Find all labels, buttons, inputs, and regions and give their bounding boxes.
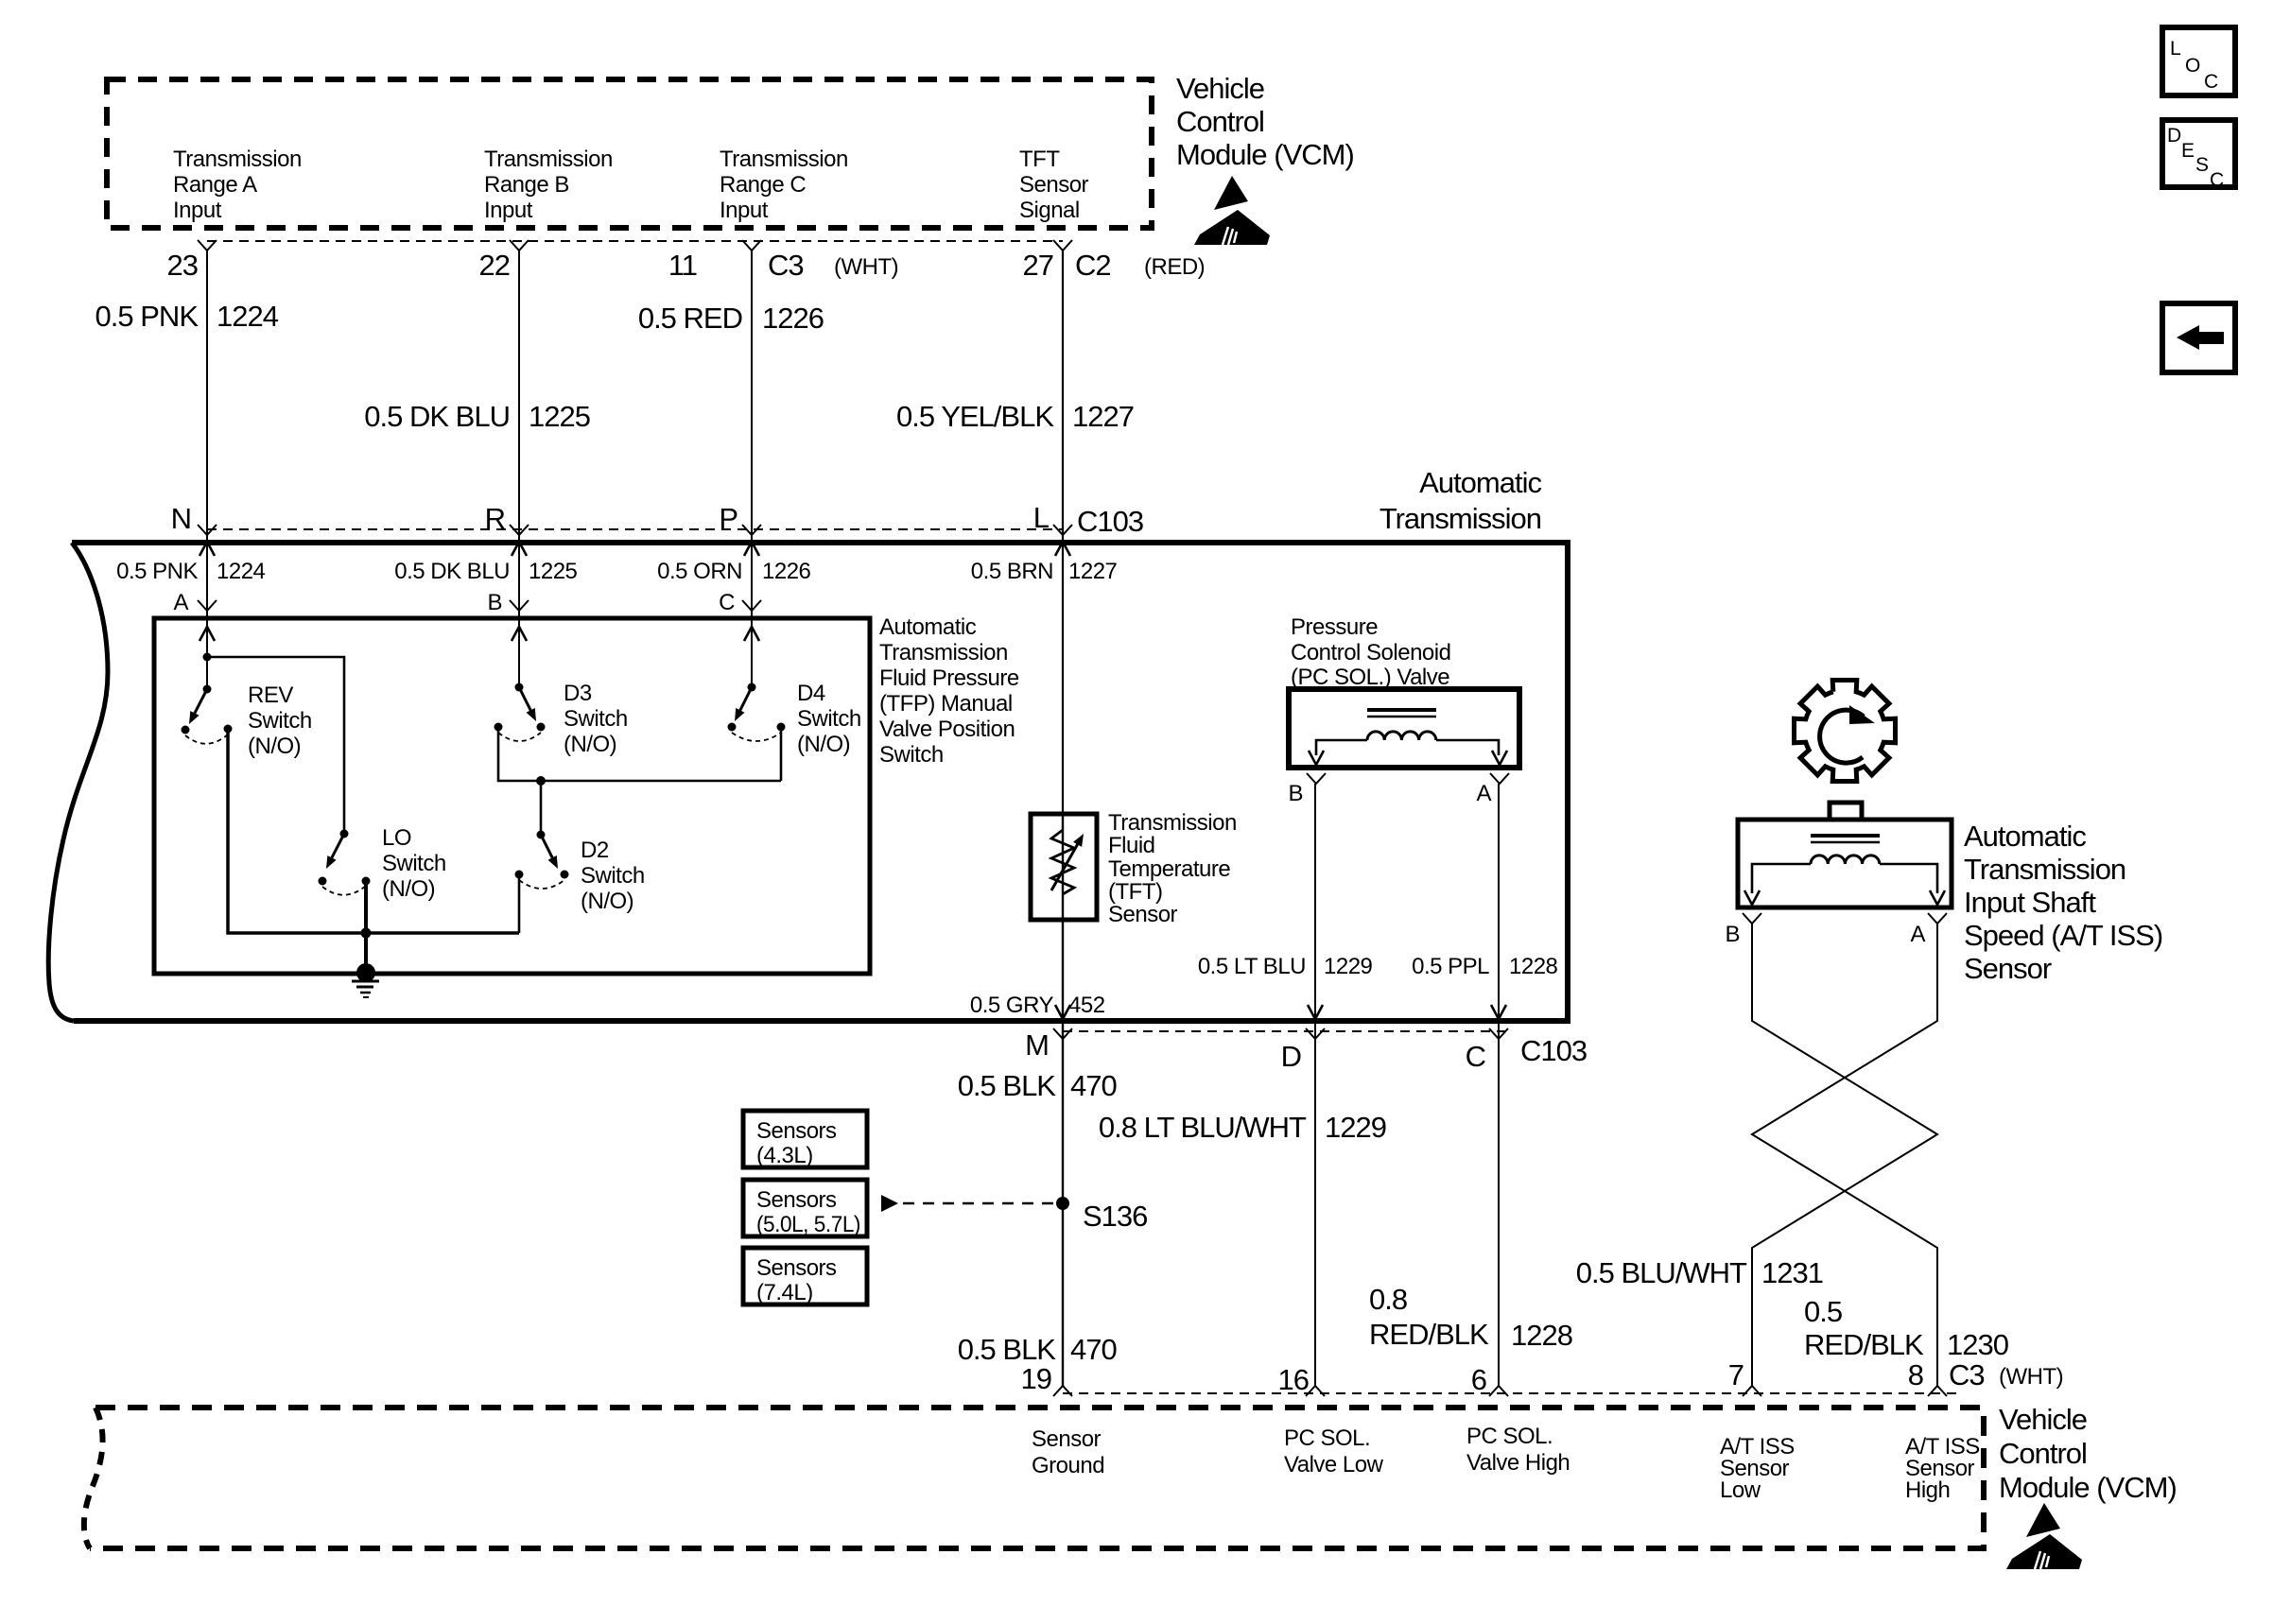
- svg-text:Range B: Range B: [484, 172, 569, 198]
- fork P: [742, 525, 761, 535]
- fork ISS A: [1928, 913, 1947, 924]
- D3 switch label: [564, 681, 628, 757]
- wire D3 to link bus: [498, 727, 781, 781]
- svg-text:Control Solenoid: Control Solenoid: [1291, 640, 1450, 665]
- fork N: [198, 525, 217, 535]
- svg-text:1228: 1228: [1509, 954, 1558, 979]
- svg-text:(7.4L): (7.4L): [756, 1280, 813, 1305]
- svg-text:1225: 1225: [529, 559, 578, 584]
- REV switch pivot: [203, 685, 212, 694]
- svg-text:D: D: [1281, 1040, 1301, 1073]
- REV switch blade: [195, 689, 207, 713]
- svg-text:(N/O): (N/O): [382, 876, 435, 902]
- svg-text:(WHT): (WHT): [1999, 1364, 2063, 1390]
- D3 switch pivot: [515, 683, 524, 692]
- svg-text:0.5 PNK: 0.5 PNK: [116, 559, 198, 584]
- svg-text:0.8 LT BLU/WHT: 0.8 LT BLU/WHT: [1099, 1111, 1307, 1144]
- fork pin 6: [1489, 1386, 1508, 1396]
- node A junction: [203, 653, 212, 662]
- svg-text:452: 452: [1068, 993, 1105, 1018]
- svg-text:16: 16: [1278, 1363, 1309, 1396]
- fork pin 23: [198, 240, 217, 251]
- svg-text:27: 27: [1023, 249, 1053, 282]
- svg-text:(4.3L): (4.3L): [756, 1143, 813, 1168]
- svg-text:8: 8: [1908, 1358, 1923, 1391]
- svg-text:Switch: Switch: [564, 706, 628, 732]
- svg-text:Sensor: Sensor: [1032, 1426, 1102, 1452]
- svg-text:19: 19: [1021, 1362, 1051, 1395]
- svg-text:1229: 1229: [1324, 954, 1373, 979]
- fork pin 27: [1053, 240, 1072, 251]
- svg-text:Range A: Range A: [173, 172, 257, 198]
- ISS arrow B: [1744, 890, 1760, 905]
- sensors 4.3L box: [743, 1111, 867, 1168]
- fork pin 16: [1306, 1386, 1325, 1396]
- REV switch contacts: [182, 725, 233, 734]
- label Vehicle Control Module (VCM) bottom: [1999, 1403, 2177, 1504]
- wire REV to ground bus: [228, 729, 519, 933]
- svg-text:PC SOL.: PC SOL.: [1284, 1425, 1370, 1451]
- wire 452 GRY (TFT to M): [1062, 815, 1064, 1386]
- svg-text:Sensor: Sensor: [1964, 952, 2052, 985]
- svg-text:Switch: Switch: [248, 708, 312, 734]
- ISS sensor label: [1964, 820, 2162, 985]
- svg-text:D: D: [2167, 125, 2181, 147]
- label TFT Sensor Signal: [1019, 147, 1089, 223]
- svg-text:0.5 RED: 0.5 RED: [638, 302, 742, 335]
- label 0.5 DK BLU 1225 (inner): [394, 559, 577, 584]
- label 0.5 PPL 1228: [1412, 954, 1557, 979]
- svg-text:LO: LO: [382, 825, 411, 851]
- svg-text:0.5 LT BLU: 0.5 LT BLU: [1198, 954, 1306, 979]
- label 0.5 PNK 1224 (inner): [116, 559, 265, 584]
- TFP manual valve position switch box: [154, 618, 870, 974]
- fork C: [742, 600, 761, 611]
- svg-text:0.5 YEL/BLK: 0.5 YEL/BLK: [896, 400, 1054, 433]
- label Transmission Range C Input: [720, 147, 848, 223]
- PC solenoid arrow A: [1492, 751, 1507, 765]
- svg-text:1224: 1224: [217, 300, 279, 333]
- wire 1225 DK BLU (pin22 to R): [518, 251, 520, 687]
- svg-text:L: L: [2170, 38, 2180, 60]
- fork pin 7: [1743, 1386, 1761, 1396]
- D3 switch contacts: [495, 723, 546, 732]
- svg-text:1228: 1228: [1511, 1319, 1572, 1352]
- svg-text:High: High: [1905, 1477, 1950, 1503]
- PC solenoid coil: [1367, 708, 1436, 712]
- svg-text:Temperature: Temperature: [1108, 856, 1230, 882]
- LO switch arc: [322, 886, 366, 895]
- TFT sensor box: [1031, 814, 1097, 920]
- svg-text:Valve Position: Valve Position: [879, 717, 1015, 742]
- D2 switch blade: [541, 835, 552, 857]
- fork C2pin: [1489, 1028, 1508, 1039]
- VCM module box (top, dashed): [107, 79, 1152, 228]
- ISS sensor bump: [1830, 803, 1862, 820]
- D3 switch blade: [519, 687, 530, 710]
- svg-text:A: A: [1476, 781, 1491, 806]
- VCM bottom torn left edge: [84, 1408, 103, 1548]
- wire 1224 PNK (pin23 to N): [206, 251, 208, 689]
- LO switch label: [382, 825, 446, 902]
- svg-text:Input: Input: [173, 198, 222, 223]
- svg-text:Transmission: Transmission: [173, 147, 302, 172]
- svg-text:Signal: Signal: [1019, 198, 1080, 223]
- wire 1226 RED (pin11 to P): [751, 251, 753, 687]
- svg-text:Control: Control: [1176, 105, 1264, 138]
- svg-text:A: A: [1910, 922, 1925, 947]
- svg-text:0.5 DK BLU: 0.5 DK BLU: [364, 400, 510, 433]
- arrow wire A into TFP: [200, 627, 215, 641]
- svg-text:Module (VCM): Module (VCM): [1999, 1471, 2177, 1504]
- svg-text:S136: S136: [1083, 1200, 1147, 1233]
- TFP description label: [879, 614, 1019, 768]
- svg-text:0.5 BRN: 0.5 BRN: [971, 559, 1053, 584]
- svg-text:Sensors: Sensors: [756, 1118, 837, 1144]
- svg-text:22: 22: [479, 249, 510, 282]
- svg-text:0.5 GRY: 0.5 GRY: [970, 993, 1054, 1018]
- fork solenoid A: [1490, 773, 1509, 784]
- label 0.5 BLK 470 lower: [958, 1333, 1118, 1366]
- wire LO contact down: [364, 881, 368, 933]
- wire 1231 BLU/WHT twisted: [1752, 924, 1937, 1386]
- connector C3 (WHT) label: [768, 249, 898, 282]
- svg-text:Automatic: Automatic: [1419, 466, 1541, 499]
- label Vehicle Control Module (VCM) top: [1176, 72, 1354, 171]
- Automatic Transmission label: [1379, 466, 1542, 535]
- ground bus junction: [361, 928, 372, 939]
- svg-text:(N/O): (N/O): [581, 889, 633, 914]
- svg-text:(N/O): (N/O): [248, 734, 301, 759]
- svg-text:REV: REV: [248, 682, 293, 708]
- label 0.5 GRY 452: [970, 993, 1105, 1018]
- svg-text:B: B: [1725, 922, 1740, 947]
- svg-text:1224: 1224: [217, 559, 266, 584]
- svg-text:Transmission: Transmission: [484, 147, 613, 172]
- LOC icon box: [2162, 27, 2235, 95]
- D4 switch blade: [740, 687, 752, 710]
- svg-text:1225: 1225: [529, 400, 590, 433]
- splice pointer arrow: [881, 1195, 898, 1212]
- svg-text:6: 6: [1471, 1363, 1486, 1396]
- svg-text:1230: 1230: [1947, 1328, 2009, 1361]
- svg-text:0.5 BLK: 0.5 BLK: [958, 1333, 1057, 1366]
- sensors 7.4L box: [743, 1248, 867, 1305]
- svg-text:C: C: [1466, 1040, 1486, 1073]
- label 0.5 RED/BLK 1230: [1804, 1295, 2009, 1361]
- PC solenoid label: [1291, 614, 1450, 690]
- label 0.5 BRN 1227 (inner): [971, 559, 1118, 584]
- LO switch pivot: [340, 830, 349, 838]
- label 0.5 RED 1226: [638, 302, 824, 335]
- wire 1229 LT BLU (B to D): [1314, 784, 1316, 1386]
- gear icon: [1795, 681, 1896, 782]
- svg-text:C: C: [719, 590, 735, 615]
- arrow into transmission wire4: [1055, 542, 1070, 556]
- label 0.5 PNK 1224: [95, 300, 279, 333]
- svg-text:Valve High: Valve High: [1466, 1450, 1570, 1476]
- svg-text:470: 470: [1070, 1333, 1117, 1366]
- svg-text:Sensor: Sensor: [1019, 172, 1089, 198]
- svg-text:C2: C2: [1075, 249, 1111, 282]
- svg-text:Fluid: Fluid: [1108, 833, 1155, 858]
- D2 switch pivot: [537, 831, 546, 839]
- svg-text:B: B: [1288, 781, 1303, 806]
- fork pin 8: [1928, 1386, 1947, 1396]
- fork D: [1306, 1028, 1325, 1039]
- svg-text:D3: D3: [564, 681, 592, 706]
- svg-text:P: P: [719, 502, 737, 535]
- svg-text:0.5 PNK: 0.5 PNK: [95, 300, 200, 333]
- svg-text:7: 7: [1728, 1358, 1744, 1391]
- svg-text:Automatic: Automatic: [879, 614, 977, 640]
- arrow into transmission wire3: [744, 542, 759, 556]
- svg-text:0.8: 0.8: [1369, 1283, 1407, 1316]
- svg-text:Switch: Switch: [879, 742, 944, 768]
- REV switch arc: [185, 734, 228, 744]
- svg-text:D2: D2: [581, 838, 609, 863]
- label 0.5 LT BLU 1229: [1198, 954, 1373, 979]
- svg-text:(RED): (RED): [1144, 254, 1205, 280]
- wire 1228 PPL (A to C): [1498, 784, 1500, 1386]
- svg-text:Input: Input: [720, 198, 769, 223]
- svg-text:Switch: Switch: [382, 851, 446, 876]
- svg-text:Valve Low: Valve Low: [1284, 1452, 1384, 1477]
- svg-text:C103: C103: [1077, 505, 1143, 538]
- svg-text:0.5 DK BLU: 0.5 DK BLU: [394, 559, 510, 584]
- fork solenoid B: [1307, 773, 1326, 784]
- dashed connector line (VCM header): [207, 240, 1063, 242]
- fork L: [1053, 525, 1072, 535]
- svg-text:Switch: Switch: [581, 863, 645, 889]
- wire 1227 YEL/BLK (pin27 to L): [1062, 251, 1064, 815]
- label 0.8 RED/BLK 1228: [1369, 1283, 1572, 1352]
- svg-text:Low: Low: [1720, 1477, 1761, 1503]
- arrow wire C to bottom: [1491, 1005, 1506, 1019]
- dashed connector line bottom: [1063, 1392, 1959, 1394]
- svg-text:Transmission: Transmission: [720, 147, 848, 172]
- label PC SOL Valve High: [1466, 1424, 1570, 1476]
- ISS internal wires: [1752, 864, 1937, 893]
- svg-text:PC SOL.: PC SOL.: [1466, 1424, 1553, 1449]
- svg-text:1227: 1227: [1072, 400, 1134, 433]
- svg-text:C103: C103: [1520, 1034, 1587, 1067]
- label AT ISS Sensor Low: [1720, 1434, 1795, 1503]
- fork pin 19: [1053, 1386, 1072, 1396]
- svg-text:(N/O): (N/O): [797, 732, 850, 757]
- svg-text:(TFP) Manual: (TFP) Manual: [879, 691, 1013, 717]
- D2 switch label: [581, 838, 645, 914]
- svg-text:Speed (A/T ISS): Speed (A/T ISS): [1964, 919, 2162, 952]
- ISS sensor box: [1738, 820, 1952, 907]
- svg-text:Transmission: Transmission: [1964, 853, 2126, 886]
- D4 switch contacts: [728, 723, 786, 732]
- wire D2 to ground bus: [518, 874, 521, 933]
- svg-text:O: O: [2185, 55, 2200, 77]
- splice dashed lead: [903, 1202, 1053, 1205]
- link bus junction: [536, 776, 546, 786]
- REV switch label: [248, 682, 312, 759]
- D2 switch contacts: [515, 871, 569, 879]
- fork M: [1053, 1028, 1072, 1039]
- gear rotation arrow: [1820, 710, 1864, 763]
- svg-text:Range C: Range C: [720, 172, 806, 198]
- TFT sensor label: [1108, 810, 1237, 927]
- label Transmission Range B Input: [484, 147, 613, 223]
- svg-text:Sensors: Sensors: [756, 1187, 837, 1213]
- svg-text:Sensor: Sensor: [1108, 902, 1178, 927]
- label 0.8 LT BLU/WHT 1229: [1099, 1111, 1386, 1144]
- svg-text:(PC SOL.) Valve: (PC SOL.) Valve: [1291, 665, 1449, 690]
- arrow into transmission wire1: [200, 542, 215, 556]
- label PC SOL Valve Low: [1284, 1425, 1384, 1477]
- arrow wire4 to bottom: [1055, 1005, 1070, 1019]
- svg-text:11: 11: [668, 249, 697, 282]
- VCM module box (bottom, dashed): [90, 1408, 1984, 1548]
- svg-text:Transmission: Transmission: [879, 640, 1008, 665]
- svg-text:L: L: [1033, 501, 1050, 534]
- svg-text:(5.0L, 5.7L): (5.0L, 5.7L): [756, 1212, 860, 1237]
- ground wire: [364, 933, 368, 972]
- transmission box torn left edge: [48, 543, 108, 1021]
- svg-text:1226: 1226: [762, 302, 824, 335]
- D3 switch arc: [498, 733, 541, 741]
- wire D4 contact down: [780, 727, 783, 781]
- arrow wire D to bottom: [1308, 1005, 1323, 1019]
- svg-text:Input Shaft: Input Shaft: [1964, 886, 2096, 919]
- svg-text:Fluid Pressure: Fluid Pressure: [879, 665, 1019, 691]
- svg-text:Switch: Switch: [797, 706, 861, 732]
- LO switch blade: [332, 834, 344, 857]
- wire 1230 RED/BLK twisted: [1752, 924, 1937, 1386]
- svg-text:1226: 1226: [762, 559, 811, 584]
- dashed connector line C103 lower: [1063, 1030, 1513, 1032]
- TFT thermistor arrow: [1051, 844, 1078, 890]
- arrow wire C into TFP: [744, 627, 759, 641]
- connector C3 (WHT) label bottom: [1949, 1358, 2063, 1391]
- svg-text:0.5 ORN: 0.5 ORN: [657, 559, 742, 584]
- svg-text:0.5 PPL: 0.5 PPL: [1412, 954, 1489, 979]
- svg-text:23: 23: [167, 249, 198, 282]
- fork pin 11: [742, 240, 761, 251]
- label AT ISS Sensor High: [1905, 1434, 1980, 1503]
- svg-text:Control: Control: [1999, 1437, 2087, 1470]
- sensors 5.0L 5.7L box: [743, 1180, 867, 1237]
- label Sensor Ground: [1032, 1426, 1104, 1478]
- LO switch contacts: [319, 877, 371, 886]
- svg-text:Input: Input: [484, 198, 533, 223]
- svg-text:(WHT): (WHT): [834, 254, 898, 280]
- svg-text:Module (VCM): Module (VCM): [1176, 138, 1354, 171]
- ground symbol: [352, 963, 379, 997]
- wire A to LO switch: [207, 657, 344, 834]
- label 0.5 YEL/BLK 1227: [896, 400, 1134, 433]
- svg-text:C: C: [2204, 71, 2218, 93]
- ISS arrow A: [1930, 890, 1945, 905]
- PC solenoid internal wires: [1316, 740, 1499, 755]
- svg-text:0.5 BLU/WHT: 0.5 BLU/WHT: [1576, 1256, 1747, 1289]
- PC solenoid arrow B: [1309, 751, 1324, 765]
- ESD symbol top: [1194, 176, 1270, 245]
- svg-text:Automatic: Automatic: [1964, 820, 2086, 853]
- fork R: [510, 525, 529, 535]
- D4 switch label: [797, 681, 861, 757]
- svg-text:Transmission: Transmission: [1108, 810, 1237, 836]
- svg-text:470: 470: [1070, 1069, 1117, 1102]
- TFT thermistor zigzag: [1051, 830, 1074, 894]
- ESD symbol bottom: [2006, 1503, 2082, 1569]
- svg-text:0.5 BLK: 0.5 BLK: [958, 1069, 1057, 1102]
- svg-text:1231: 1231: [1761, 1256, 1823, 1289]
- svg-text:B: B: [487, 590, 502, 615]
- svg-text:C3: C3: [1949, 1358, 1985, 1391]
- svg-text:TFT: TFT: [1019, 147, 1060, 172]
- svg-text:D4: D4: [797, 681, 825, 706]
- label 0.5 ORN 1226 (inner): [657, 559, 810, 584]
- fork B: [510, 600, 529, 611]
- svg-text:E: E: [2181, 140, 2195, 162]
- svg-text:Vehicle: Vehicle: [1176, 72, 1264, 105]
- PC solenoid valve box: [1289, 689, 1519, 768]
- label 0.5 BLU/WHT 1231: [1576, 1256, 1823, 1289]
- svg-text:C: C: [2210, 169, 2224, 191]
- fork ISS B: [1743, 913, 1761, 924]
- svg-text:A: A: [173, 590, 188, 615]
- svg-text:RED/BLK: RED/BLK: [1369, 1318, 1489, 1351]
- svg-text:Transmission: Transmission: [1379, 502, 1541, 535]
- D2 switch arc: [519, 880, 564, 889]
- svg-text:(TFT): (TFT): [1108, 879, 1162, 905]
- dashed connector line C103: [207, 528, 1063, 530]
- wire link to D2: [540, 781, 543, 835]
- label 0.5 BLK 470 upper: [958, 1069, 1118, 1102]
- D4 switch pivot: [748, 683, 756, 692]
- connector C2 (RED) label: [1075, 249, 1205, 282]
- label Transmission Range A Input: [173, 147, 302, 223]
- svg-text:0.5: 0.5: [1804, 1295, 1842, 1328]
- label 0.5 DK BLU 1225: [364, 400, 590, 433]
- splice S136 dot: [1056, 1197, 1069, 1210]
- svg-text:C3: C3: [768, 249, 804, 282]
- svg-text:(N/O): (N/O): [564, 732, 616, 757]
- svg-text:Vehicle: Vehicle: [1999, 1403, 2087, 1436]
- fork pin 22: [510, 240, 529, 251]
- arrow into transmission wire2: [512, 542, 527, 556]
- ISS sensor coil: [1811, 834, 1880, 838]
- svg-text:Pressure: Pressure: [1291, 614, 1378, 640]
- transmission box outline: [72, 543, 1568, 1021]
- fork A: [198, 600, 217, 611]
- svg-text:Ground: Ground: [1032, 1453, 1104, 1478]
- arrow wire B into TFP: [512, 627, 527, 641]
- svg-text:S: S: [2195, 154, 2209, 176]
- svg-text:1227: 1227: [1068, 559, 1118, 584]
- D4 switch arc: [732, 733, 781, 741]
- DESC icon box: [2162, 120, 2235, 191]
- svg-text:Sensors: Sensors: [756, 1255, 837, 1281]
- svg-text:N: N: [171, 502, 191, 535]
- svg-text:R: R: [485, 502, 505, 535]
- back-arrow icon box: [2162, 303, 2235, 372]
- svg-text:1229: 1229: [1325, 1111, 1386, 1144]
- svg-text:RED/BLK: RED/BLK: [1804, 1328, 1924, 1361]
- svg-text:M: M: [1025, 1028, 1049, 1062]
